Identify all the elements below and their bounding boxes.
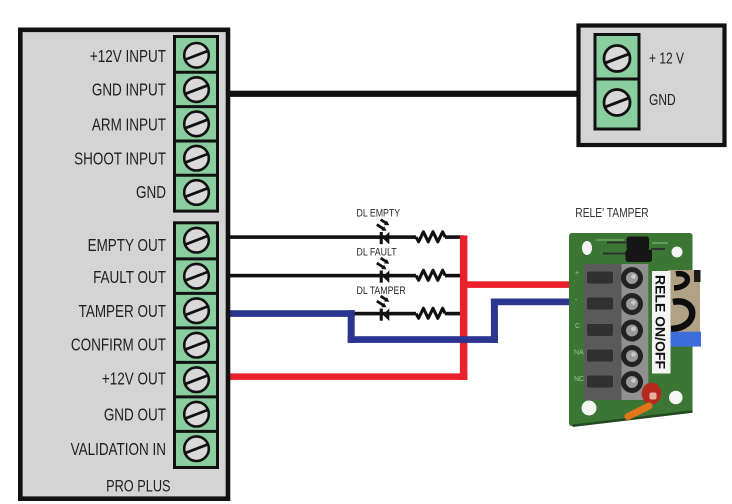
terminal block slots column bbox=[584, 264, 622, 400]
mounting hole bottom-right bbox=[669, 391, 683, 405]
svg-text:RELE' TAMPER: RELE' TAMPER bbox=[575, 206, 648, 220]
svg-text:GND INPUT: GND INPUT bbox=[92, 81, 166, 100]
resistor R3 bbox=[416, 308, 445, 318]
relay body bbox=[668, 270, 700, 338]
svg-text:FAULT OUT: FAULT OUT bbox=[93, 268, 166, 287]
wire blue riser 1 bbox=[348, 310, 355, 343]
terminal separators strip 1 bbox=[173, 72, 219, 175]
svg-text:PRO PLUS: PRO PLUS bbox=[106, 477, 170, 496]
label DL FAULT bbox=[357, 247, 397, 259]
label RELE' TAMPER bbox=[575, 206, 648, 220]
terminal screws strip 1 bbox=[184, 43, 209, 205]
mounting hole top-right bbox=[672, 247, 683, 258]
svg-text:C: C bbox=[575, 323, 580, 330]
relay mark upper bbox=[674, 274, 687, 288]
svg-text:GND: GND bbox=[649, 90, 676, 108]
wire FAULT OUT to LED DL2 (black) bbox=[226, 274, 416, 278]
label DL EMPTY bbox=[357, 208, 401, 220]
resistor R2 bbox=[416, 270, 445, 280]
svg-text:GND OUT: GND OUT bbox=[104, 406, 166, 425]
svg-text:+: + bbox=[575, 270, 579, 277]
wire blue lower horizontal bbox=[348, 336, 498, 343]
label RELE ON/OFF bbox=[652, 271, 671, 374]
relay board PCB bbox=[569, 233, 701, 426]
supply screw GND bbox=[604, 90, 630, 116]
svg-text:DL EMPTY: DL EMPTY bbox=[357, 208, 401, 220]
svg-text:CONFIRM OUT: CONFIRM OUT bbox=[71, 336, 166, 355]
wire +12V vertical bus (red) bbox=[460, 235, 468, 380]
svg-text:+12V OUT: +12V OUT bbox=[102, 370, 166, 389]
terminal screws column bbox=[622, 264, 649, 400]
diode component bbox=[627, 237, 650, 251]
power supply box bbox=[579, 26, 725, 146]
label PRO PLUS bbox=[106, 477, 170, 496]
LED DL EMPTY bbox=[377, 220, 390, 245]
wire EMPTY OUT to LED DL1 (black) bbox=[226, 235, 416, 239]
svg-text:RELE ON/OFF: RELE ON/OFF bbox=[653, 275, 669, 369]
label DL TAMPER bbox=[357, 285, 406, 297]
supply terminal strip bbox=[595, 35, 639, 130]
supply screw +12V bbox=[604, 46, 630, 72]
svg-text:TAMPER OUT: TAMPER OUT bbox=[79, 302, 167, 321]
module PRO PLUS enclosure bbox=[20, 30, 228, 499]
terminal strip 1 (inputs) bbox=[175, 37, 218, 212]
terminal screws strip 2 bbox=[184, 228, 209, 461]
wire LED DL3 row (black) bbox=[351, 312, 416, 316]
supply terminal separator bbox=[594, 78, 641, 81]
svg-text:EMPTY OUT: EMPTY OUT bbox=[88, 236, 167, 255]
silk pin labels bbox=[574, 270, 584, 383]
wire blue to relay board bbox=[491, 299, 572, 306]
wire GND INPUT to supply GND (black) bbox=[226, 91, 578, 97]
LED DL FAULT bbox=[377, 258, 390, 283]
resistor R1 bbox=[416, 232, 445, 242]
pin labels PRO PLUS bbox=[71, 47, 167, 459]
svg-text:ARM INPUT: ARM INPUT bbox=[92, 116, 166, 135]
svg-text:NC: NC bbox=[574, 376, 584, 383]
wire +12V OUT horizontal (red) bbox=[226, 373, 467, 380]
relay mark lower bbox=[671, 301, 692, 329]
svg-text:GND: GND bbox=[136, 183, 166, 202]
wire TAMPER OUT horizontal (blue) bbox=[226, 310, 355, 317]
svg-text:+ 12 V: + 12 V bbox=[649, 49, 684, 67]
terminal separators strip 2 bbox=[173, 259, 219, 432]
svg-text:+12V INPUT: +12V INPUT bbox=[90, 47, 166, 66]
mounting hole top-left bbox=[582, 241, 592, 255]
pcb silk traces bbox=[596, 240, 668, 243]
mounting hole bottom-left bbox=[582, 401, 597, 416]
relay blue block bbox=[669, 332, 701, 347]
wire +12V branch to relay board (red) bbox=[463, 281, 572, 288]
red LED on board bbox=[642, 383, 662, 405]
svg-text:VALIDATION IN: VALIDATION IN bbox=[71, 440, 166, 459]
orange resistor on board bbox=[628, 406, 649, 417]
LED DL TAMPER bbox=[377, 296, 390, 321]
supply labels bbox=[649, 49, 684, 109]
svg-text:SHOOT INPUT: SHOOT INPUT bbox=[74, 150, 166, 169]
svg-text:DL FAULT: DL FAULT bbox=[357, 247, 397, 259]
diode leads bbox=[603, 243, 665, 254]
wire blue riser 2 bbox=[491, 299, 498, 343]
svg-text:NA: NA bbox=[574, 350, 584, 357]
terminal strip 2 (outputs) bbox=[175, 223, 218, 468]
